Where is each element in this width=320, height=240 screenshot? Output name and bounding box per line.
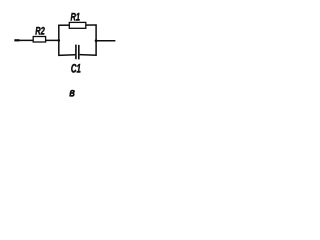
node A (input junction dot) <box>58 39 61 42</box>
wire left vertical <box>58 25 60 56</box>
svg-text:R1: R1 <box>71 10 81 23</box>
svg-text:в: в <box>69 87 75 100</box>
wire bottom branch left <box>58 54 75 57</box>
capacitor C1 <box>76 45 79 60</box>
resistor R1 <box>69 22 86 28</box>
wire right vertical <box>95 24 97 55</box>
wire bottom branch right <box>80 54 97 57</box>
svg-text:R2: R2 <box>35 24 45 37</box>
wire top branch <box>58 24 96 26</box>
wire input left <box>14 39 59 41</box>
node B (output junction dot) <box>95 39 98 42</box>
wire output right <box>96 40 115 42</box>
svg-text:C1: C1 <box>71 63 81 76</box>
resistor R2 <box>33 37 45 43</box>
